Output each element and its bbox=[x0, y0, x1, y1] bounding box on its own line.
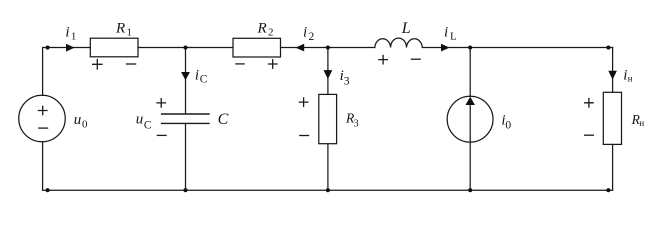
svg-text:2: 2 bbox=[309, 31, 315, 43]
current arrow iL bbox=[441, 44, 450, 52]
current arrow i1 bbox=[66, 44, 75, 52]
polarity + of C bbox=[156, 98, 166, 108]
wire left vertical upper bbox=[42, 47, 44, 95]
polarity - of R2 bbox=[235, 63, 244, 65]
label R3 bbox=[345, 110, 359, 129]
label i2 bbox=[303, 25, 315, 43]
svg-text:C: C bbox=[200, 73, 208, 85]
wire R2 to L bbox=[281, 46, 375, 48]
inductor L bbox=[375, 38, 423, 47]
svg-text:C: C bbox=[218, 111, 229, 128]
current source i0 bbox=[447, 96, 493, 142]
svg-text:i: i bbox=[65, 25, 69, 41]
node junction dot bottom C bbox=[183, 188, 187, 192]
polarity + of RH bbox=[584, 98, 594, 108]
label C bbox=[218, 111, 229, 128]
svg-text:3: 3 bbox=[354, 118, 359, 129]
label iH bbox=[623, 67, 633, 83]
resistor R1 bbox=[90, 38, 138, 57]
svg-text:0: 0 bbox=[505, 119, 511, 131]
node junction dot top-left bbox=[46, 45, 50, 49]
polarity + inside u0 bbox=[38, 106, 48, 116]
wire capacitor branch upper bbox=[185, 47, 187, 113]
wire R3 branch lower bbox=[327, 144, 329, 191]
node junction dot bottom-left bbox=[46, 188, 50, 192]
label u0 bbox=[74, 112, 88, 131]
svg-text:н: н bbox=[639, 118, 644, 128]
node junction dot top R3 bbox=[326, 45, 330, 49]
wire right vertical lower bbox=[612, 144, 614, 190]
current arrow i3 bbox=[324, 70, 333, 79]
label L bbox=[401, 20, 411, 37]
node junction dot bottom i0 bbox=[468, 188, 472, 192]
polarity + of L bbox=[378, 55, 388, 65]
wire R3 branch upper bbox=[327, 47, 329, 94]
voltage source u0 bbox=[19, 95, 66, 142]
svg-text:1: 1 bbox=[71, 31, 77, 43]
polarity + of R2 bbox=[268, 59, 278, 69]
wire right vertical upper bbox=[612, 47, 614, 92]
svg-text:1: 1 bbox=[127, 27, 133, 39]
polarity - of R1 bbox=[126, 63, 136, 65]
wire i0 branch upper bbox=[469, 47, 471, 96]
svg-text:L: L bbox=[450, 31, 457, 43]
svg-text:i: i bbox=[195, 67, 199, 83]
polarity + of R3 bbox=[299, 97, 309, 107]
node junction dot bottom-right bbox=[606, 188, 610, 192]
polarity - of RH bbox=[584, 134, 594, 136]
svg-text:C: C bbox=[144, 119, 152, 131]
polarity - inside u0 bbox=[38, 127, 48, 129]
svg-text:R: R bbox=[257, 21, 267, 37]
label i3 bbox=[340, 68, 350, 88]
svg-text:2: 2 bbox=[268, 27, 274, 39]
wire top-left horizontal bbox=[43, 46, 91, 48]
svg-text:i: i bbox=[303, 25, 307, 41]
label i0 bbox=[501, 112, 511, 131]
capacitor C plates bbox=[161, 114, 210, 123]
node junction dot top C bbox=[183, 45, 187, 49]
current arrow i2 bbox=[295, 44, 304, 52]
svg-text:R: R bbox=[115, 21, 125, 37]
label RH bbox=[631, 112, 645, 128]
polarity - of R3 bbox=[299, 135, 309, 137]
svg-text:i: i bbox=[444, 25, 448, 41]
svg-text:u: u bbox=[74, 112, 82, 128]
current arrow iH bbox=[608, 71, 617, 80]
wire R1 to R2 bbox=[138, 46, 233, 48]
wire left vertical lower bbox=[42, 142, 44, 190]
wire L to top-right corner bbox=[422, 46, 612, 48]
wire capacitor branch lower bbox=[185, 124, 187, 191]
label i1 bbox=[65, 25, 76, 43]
node junction dot bottom R3 bbox=[326, 188, 330, 192]
polarity - of C bbox=[157, 134, 167, 136]
arrow inside i0 bbox=[466, 97, 475, 105]
resistor R2 bbox=[233, 38, 281, 57]
polarity + of R1 bbox=[92, 59, 103, 70]
label uC bbox=[136, 112, 152, 132]
node junction dot top i0 bbox=[468, 45, 472, 49]
svg-text:L: L bbox=[401, 20, 411, 37]
resistor R3 bbox=[319, 94, 337, 143]
node junction dot top-right bbox=[606, 45, 610, 49]
wire i0 branch lower bbox=[469, 142, 471, 190]
label R2 bbox=[257, 21, 274, 39]
wire bottom bbox=[43, 189, 613, 191]
current arrow iC bbox=[181, 72, 190, 80]
svg-text:u: u bbox=[136, 112, 144, 128]
label R1 bbox=[115, 21, 132, 39]
svg-text:0: 0 bbox=[82, 119, 88, 131]
svg-text:н: н bbox=[628, 73, 633, 83]
label iL bbox=[444, 25, 457, 43]
polarity - of L bbox=[411, 58, 421, 60]
label iC bbox=[195, 67, 208, 85]
svg-text:3: 3 bbox=[344, 76, 350, 88]
resistor RH load bbox=[603, 92, 621, 144]
